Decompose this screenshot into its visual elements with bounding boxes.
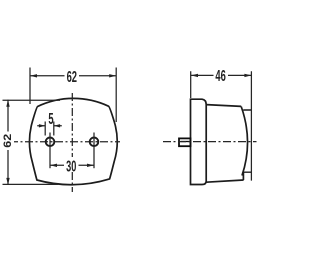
dim 30 line xyxy=(50,164,94,166)
left dim 62 line xyxy=(7,100,9,185)
body cone bottom edge xyxy=(206,180,243,182)
svg-text:62: 62 xyxy=(2,134,14,148)
top dim 62 line xyxy=(30,75,116,77)
lens front face ticks xyxy=(243,110,251,172)
lens profile arc xyxy=(241,107,247,176)
stud xyxy=(179,138,191,146)
body cone top edge xyxy=(206,105,241,107)
hole right xyxy=(90,138,99,147)
svg-text:62: 62 xyxy=(67,69,77,86)
hole left xyxy=(46,138,55,147)
top dim 62 extension lines xyxy=(30,68,116,123)
dim 5 arrow tails xyxy=(37,125,62,127)
side centerline xyxy=(163,141,257,143)
svg-text:46: 46 xyxy=(215,68,225,85)
horizontal centerline xyxy=(14,141,120,143)
vertical centerline xyxy=(71,93,73,157)
dim 30 arrows xyxy=(50,164,57,167)
hole left centermark / extension xyxy=(49,133,51,169)
dim 46 line xyxy=(191,74,251,76)
left dim 62 extension lines xyxy=(3,100,61,184)
dim 5 extension lines xyxy=(45,122,54,136)
svg-text:30: 30 xyxy=(66,158,76,175)
base plate xyxy=(191,99,207,184)
svg-text:5: 5 xyxy=(48,111,53,128)
dim 5 arrowheads xyxy=(39,124,45,127)
top dim 62 arrows xyxy=(30,74,37,77)
dim 46 extension lines xyxy=(191,71,252,180)
lens outline (rounded-square cushion) xyxy=(29,98,117,184)
hole right centermark / extension xyxy=(93,133,95,169)
left dim 62 arrows xyxy=(6,100,9,107)
dim 46 arrows xyxy=(191,74,198,77)
lens bottom step xyxy=(242,172,244,180)
